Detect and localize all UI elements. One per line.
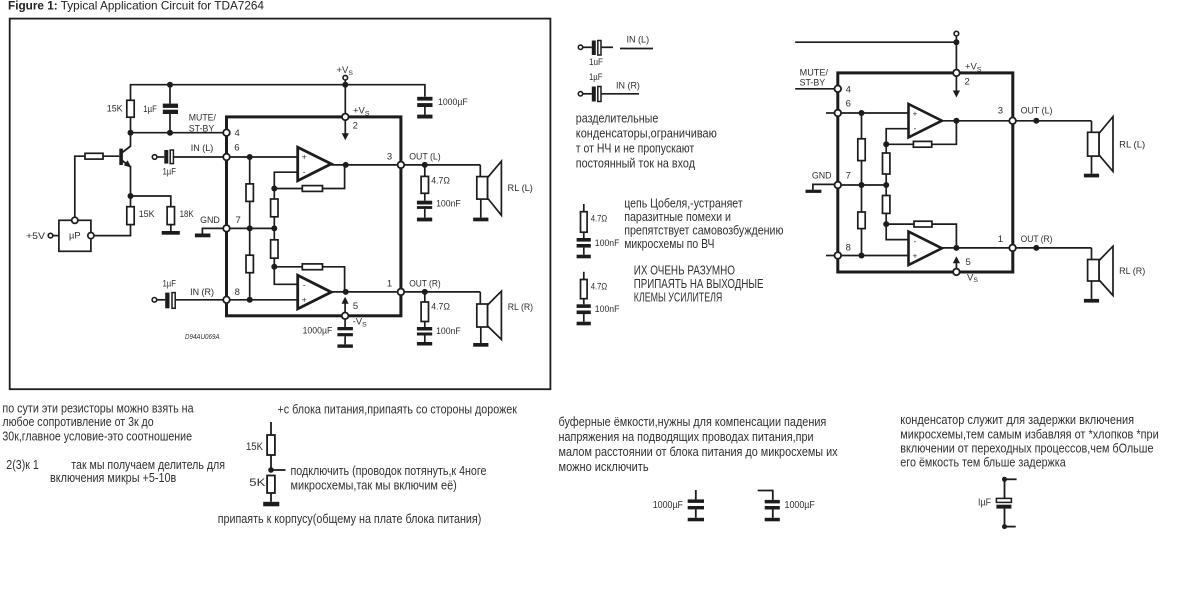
resistor 4.7Ω (R) — [421, 292, 450, 322]
svg-text:6: 6 — [846, 98, 851, 109]
wire op-amp A output (right) — [942, 118, 1013, 124]
svg-text:RL (R): RL (R) — [508, 302, 533, 313]
note coupling caps — [576, 112, 717, 171]
svg-text:-: - — [303, 166, 306, 176]
svg-text:-: - — [914, 237, 917, 246]
pin 1 (OUT R) — [387, 278, 441, 295]
svg-text:ИХ ОЧЕНЬ РАЗУМНО: ИХ ОЧЕНЬ РАЗУМНО — [634, 263, 735, 277]
svg-text:любое сопротивление от 3к до: любое сопротивление от 3к до — [2, 415, 153, 429]
pin 4 — [223, 128, 240, 139]
capacitor 1000µF (+Vs buffer) — [417, 97, 468, 119]
pin 7 (right) — [812, 171, 851, 189]
resistor 5K (external divider) — [249, 476, 275, 502]
svg-text:1uF: 1uF — [589, 57, 603, 68]
junction +Vs rail dots — [167, 82, 348, 88]
svg-text:микросхемы,тем самым избавляя: микросхемы,тем самым избавляя от *хлопко… — [900, 427, 1158, 441]
svg-text:микросхемы по ВЧ: микросхемы по ВЧ — [624, 237, 714, 251]
svg-text:+: + — [913, 109, 918, 118]
pin 4 (right) — [835, 84, 851, 95]
svg-text:GND: GND — [200, 215, 220, 226]
svg-text:OUT (L): OUT (L) — [409, 151, 441, 162]
svg-text:т от НЧ и не пропускают: т от НЧ и не пропускают — [576, 142, 695, 156]
svg-text:буферные ёмкости,нужны для ком: буферные ёмкости,нужны для компенсации п… — [559, 415, 827, 429]
pin 2 (+Vs) — [342, 106, 370, 141]
op-amp B — [298, 275, 332, 309]
note solder to chassis — [218, 512, 482, 526]
feedback network op-amp B (right) — [883, 221, 956, 248]
svg-text:1µF: 1µF — [143, 104, 157, 115]
svg-text:+с блока питания,припаять со с: +с блока питания,припаять со стороны дор… — [278, 403, 518, 417]
note solder to output terminals — [634, 263, 764, 304]
svg-text:можно исключить: можно исключить — [559, 460, 649, 474]
capacitor 1000µF (-Vs) — [303, 319, 353, 348]
svg-text:18K: 18K — [180, 209, 195, 220]
µP block — [59, 217, 94, 251]
capacitor 1µF IN (L) — [163, 143, 227, 178]
svg-text:микросхемы,так мы включим её): микросхемы,так мы включим её) — [291, 479, 457, 493]
svg-text:OUT (R): OUT (R) — [409, 278, 441, 289]
note resistors choice — [2, 402, 193, 444]
note delay capacitor — [900, 413, 1158, 469]
capacitor 1µF coupling (R) — [589, 72, 640, 102]
svg-text:1000µF: 1000µF — [303, 325, 333, 336]
svg-text:ST-BY: ST-BY — [800, 77, 826, 88]
svg-text:малом расстоянии от блока пита: малом расстоянии от блока питания до мик… — [559, 445, 839, 459]
wire pin6 to op-amp (right) — [838, 110, 909, 116]
resistor 4.7Ω zobel 2 — [581, 272, 608, 305]
pin 8 — [223, 287, 240, 303]
pin 1 (right) — [998, 234, 1053, 251]
wire µP out to divider — [94, 225, 131, 236]
svg-text:напряжения на подводящих прово: напряжения на подводящих проводах питани… — [559, 430, 814, 444]
pin 3 (OUT L) — [387, 151, 441, 168]
op-amp A (right) — [909, 104, 942, 137]
svg-text:8: 8 — [846, 243, 851, 254]
svg-text:30к,главное условие-это соотно: 30к,главное условие-это соотношение — [2, 430, 192, 444]
ground (external divider) — [263, 502, 279, 507]
svg-text:15K: 15K — [107, 103, 123, 114]
svg-text:его ёмкость тем бльше задержка: его ёмкость тем бльше задержка — [900, 455, 1065, 469]
terminal IN (R) — [152, 298, 165, 303]
svg-text:5K: 5K — [249, 477, 266, 489]
svg-text:IN (R): IN (R) — [190, 287, 214, 298]
svg-text:100nF: 100nF — [436, 199, 461, 210]
svg-text:включения микры +5-10в: включения микры +5-10в — [50, 471, 177, 485]
speaker RL (R) — [473, 291, 533, 347]
resistor 4.7Ω (L) — [421, 165, 450, 193]
note connect to pin 4 — [291, 464, 487, 493]
ground (pin 7) — [195, 228, 224, 237]
node divider column A (right) — [858, 113, 865, 259]
capacitor 1µF delay — [978, 477, 1017, 529]
wire GND rail — [227, 225, 277, 231]
svg-text:-: - — [914, 124, 917, 133]
resistor 4.7Ω zobel 1 — [581, 204, 608, 238]
wire mute row to pin 4 — [128, 130, 227, 136]
svg-text:конденсаторы,ограничиваю: конденсаторы,ограничиваю — [576, 127, 717, 141]
svg-text:так мы получаем делитель для: так мы получаем делитель для — [71, 458, 225, 472]
svg-text:1000µF: 1000µF — [438, 97, 468, 108]
svg-text:ПРИПАЯТЬ НА ВЫХОДНЫЕ: ПРИПАЯТЬ НА ВЫХОДНЫЕ — [634, 277, 764, 291]
svg-text:100nF: 100nF — [595, 238, 620, 249]
svg-text:Figure 1: Typical Application: Figure 1: Typical Application Circuit fo… — [8, 0, 265, 12]
svg-text:4.7Ω: 4.7Ω — [431, 176, 450, 187]
speaker RL (L) — [473, 161, 533, 221]
node divider column B — [271, 189, 278, 267]
svg-text:3: 3 — [387, 151, 392, 162]
wire OUT (R) — [404, 289, 480, 295]
svg-text:-: - — [303, 280, 306, 290]
terminal input coupling (R) — [578, 92, 592, 96]
wire pin8 to op-amp B — [227, 299, 298, 301]
capacitor 100nF (L) — [417, 193, 461, 221]
wire GND rail (right) — [838, 182, 889, 188]
label MUTE/ST-BY — [189, 113, 216, 135]
svg-text:паразитные помехи и: паразитные помехи и — [624, 210, 731, 224]
op-amp IC U1 TDA7264 outline — [227, 117, 401, 316]
op-amp B (right) — [909, 232, 942, 265]
label D94AU069A — [185, 332, 220, 341]
pin 6 — [223, 143, 239, 161]
svg-text:ST-BY: ST-BY — [189, 124, 215, 135]
note from power supply — [278, 403, 518, 417]
svg-text:IN (L): IN (L) — [627, 35, 650, 46]
terminal IN (L) — [152, 155, 164, 160]
node divider column B (right) — [883, 144, 890, 224]
svg-text:1µF: 1µF — [163, 167, 177, 178]
svg-text:OUT (R): OUT (R) — [1021, 234, 1053, 245]
capacitor 100nF (R) — [417, 322, 461, 346]
svg-text:100nF: 100nF — [595, 304, 620, 315]
title — [8, 0, 550, 389]
svg-text:4: 4 — [235, 128, 240, 139]
ground (pin 7, right) — [806, 184, 835, 193]
capacitor 100nF zobel 1 — [577, 238, 620, 258]
pin 7 (GND) — [200, 215, 241, 232]
capacitor 1uF coupling (L) — [589, 41, 613, 68]
speaker RL (L) right — [1084, 117, 1145, 178]
svg-text:MUTE/: MUTE/ — [189, 113, 216, 124]
wire MUTE/ST-BY (right) — [795, 68, 834, 89]
capacitor 1µF (mute) — [143, 104, 178, 133]
feedback network op-amp A (right) — [883, 121, 956, 148]
capacitor 1000µF buffer 1 — [653, 490, 704, 521]
svg-text:2(3)к 1: 2(3)к 1 — [6, 458, 39, 472]
svg-text:припаять к корпусу(общему на п: припаять к корпусу(общему на плате блока… — [218, 512, 482, 526]
svg-text:КЛЕМЫ УСИЛИТЕЛЯ: КЛЕМЫ УСИЛИТЕЛЯ — [634, 290, 723, 304]
pin 6 (right) — [835, 98, 851, 116]
svg-text:OUT (L): OUT (L) — [1021, 106, 1053, 117]
speaker RL (R) right — [1084, 246, 1145, 302]
note zobel — [624, 196, 783, 251]
svg-text:препятствует самовозбуждению: препятствует самовозбуждению — [624, 224, 783, 238]
pin 5 (right) — [953, 256, 979, 284]
wire +Vs rail (right) — [795, 36, 959, 73]
svg-text:подключить (проводок потянуть,: подключить (проводок потянуть,к 4ноге — [291, 464, 487, 478]
svg-text:RL (R): RL (R) — [1119, 266, 1145, 277]
terminal +5V — [26, 231, 59, 242]
svg-text:15K: 15K — [246, 441, 264, 453]
resistor 15K (mute pull-up) — [107, 100, 134, 132]
feedback network op-amp B — [271, 264, 344, 292]
svg-text:5: 5 — [353, 301, 358, 312]
svg-text:4: 4 — [846, 84, 851, 95]
svg-text:IµF: IµF — [978, 498, 991, 509]
svg-text:8: 8 — [235, 287, 240, 298]
node divider column A — [246, 157, 253, 303]
capacitor 1000µF buffer 2 — [758, 491, 815, 522]
svg-text:1µF: 1µF — [163, 279, 177, 290]
svg-text:2: 2 — [965, 77, 970, 88]
resistor base — [75, 153, 103, 217]
wire OUT (L) — [404, 162, 480, 168]
transistor Q1 — [103, 133, 131, 196]
svg-text:цепь Цобеля,-устраняет: цепь Цобеля,-устраняет — [624, 196, 743, 210]
svg-text:1000µF: 1000µF — [653, 500, 683, 511]
terminal +Vs — [337, 65, 354, 80]
svg-text:7: 7 — [236, 215, 241, 226]
capacitor 100nF zobel 2 — [577, 304, 620, 325]
terminal input coupling (L) — [578, 45, 592, 49]
op-amp IC outline (right) — [838, 73, 1013, 272]
resistor 15K (divider) — [127, 193, 155, 225]
svg-text:IN (R): IN (R) — [616, 81, 640, 92]
svg-text:+: + — [913, 252, 918, 261]
wire pin8 to op-amp (right) — [838, 255, 909, 257]
svg-text:+5V: +5V — [26, 231, 46, 242]
feedback network op-amp A — [271, 165, 344, 192]
svg-text:µP: µP — [69, 231, 81, 241]
svg-text:1: 1 — [998, 234, 1003, 245]
svg-text:1000µF: 1000µF — [785, 500, 815, 511]
note ratio — [6, 458, 225, 485]
svg-text:3: 3 — [998, 106, 1003, 117]
svg-text:4.7Ω: 4.7Ω — [591, 214, 608, 225]
svg-text:RL (L): RL (L) — [508, 183, 533, 194]
op-amp A — [298, 147, 332, 181]
svg-text:2: 2 — [353, 121, 358, 132]
wire OUT R (right) — [1016, 245, 1092, 251]
svg-text:7: 7 — [846, 171, 851, 182]
svg-text:D94AU069A: D94AU069A — [185, 332, 220, 341]
wire pin6 stub (right) — [826, 112, 834, 114]
resistor 18K — [167, 207, 194, 231]
wire pin8 stub (right) — [826, 255, 834, 257]
svg-text:постоянный ток на вход: постоянный ток на вход — [576, 157, 696, 171]
svg-text:+: + — [302, 152, 307, 162]
svg-text:4.7Ω: 4.7Ω — [431, 301, 450, 312]
capacitor 1µF IN (R) — [163, 279, 227, 309]
svg-text:IN (L): IN (L) — [191, 143, 214, 154]
wire to 18K — [131, 196, 171, 207]
ground (18K) — [162, 231, 180, 235]
pin 3 (right) — [998, 106, 1053, 125]
svg-text:15K: 15K — [139, 209, 155, 220]
svg-text:конденсатор служит для задержк: конденсатор служит для задержки включени… — [900, 413, 1134, 427]
svg-text:5: 5 — [966, 257, 971, 268]
node divider tap — [268, 467, 285, 473]
terminal +Vs (right) — [954, 31, 959, 36]
pin 5 (-Vs) — [342, 297, 368, 329]
svg-text:по сути эти резисторы можно вз: по сути эти резисторы можно взять на — [2, 402, 193, 416]
note buffer capacitors — [559, 415, 839, 474]
pin 8 (right) — [835, 243, 851, 259]
svg-text:4.7Ω: 4.7Ω — [591, 282, 608, 293]
wire OUT L (right) — [1016, 118, 1092, 124]
svg-text:6: 6 — [234, 143, 239, 154]
label IN (L) with wire — [620, 35, 653, 49]
svg-text:100nF: 100nF — [436, 326, 461, 337]
wire op-amp B output (right) — [942, 245, 1013, 251]
svg-text:RL (L): RL (L) — [1119, 139, 1145, 150]
svg-text:GND: GND — [812, 171, 832, 182]
wire op-amp A output — [331, 162, 401, 168]
svg-text:включении от переходных процес: включении от переходных процессов,чем бО… — [900, 442, 1153, 456]
svg-text:разделительные: разделительные — [576, 112, 659, 126]
wire +Vs rail — [131, 80, 425, 117]
svg-text:1µF: 1µF — [589, 72, 603, 83]
svg-text:1: 1 — [387, 278, 392, 289]
svg-text:+: + — [302, 295, 307, 305]
wire op-amp B output — [331, 289, 401, 295]
resistor 15K (external divider) — [246, 422, 275, 470]
wire pin6 to op-amp A — [227, 154, 298, 160]
pin 2 (right) — [953, 62, 982, 98]
